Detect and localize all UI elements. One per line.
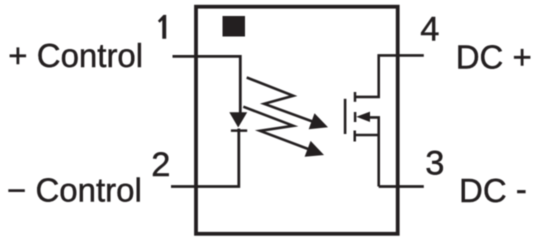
svg-text:− Control: − Control <box>7 172 142 209</box>
MOSFET Q1 body arrow head <box>356 112 370 122</box>
pin 1 marker <box>223 16 246 37</box>
MOSFET Q1 drain channel tick <box>354 92 357 102</box>
MOSFET Q1 source wire <box>355 134 379 137</box>
light arrow 1 head <box>309 113 328 129</box>
wire pin 3 <box>379 185 424 188</box>
MOSFET Q1 drain wire to pin 4 <box>355 55 424 97</box>
wire LED cathode to pin 2 <box>171 129 239 187</box>
svg-text:DC +: DC + <box>456 39 532 76</box>
light arrow 2 head <box>305 141 324 157</box>
svg-text:+ Control: + Control <box>8 37 143 74</box>
MOSFET Q1 body tick <box>354 112 357 122</box>
MOSFET Q1 source channel tick <box>354 131 357 142</box>
package outline U1 <box>196 7 398 234</box>
pin 1 number label <box>158 15 166 39</box>
MOSFET Q1 body wire <box>369 117 379 186</box>
svg-text:3: 3 <box>425 144 444 182</box>
svg-text:2: 2 <box>151 146 170 184</box>
svg-text:DC -: DC - <box>459 171 527 210</box>
svg-text:4: 4 <box>420 10 439 48</box>
wire pin 1 to LED anode <box>173 56 241 113</box>
light arrow 1 zigzag <box>247 78 313 122</box>
MOSFET Q1 gate line <box>344 99 347 134</box>
LED D1 anode triangle <box>229 112 247 127</box>
LED D1 cathode bar <box>231 129 247 132</box>
light arrow 2 zigzag <box>243 107 308 149</box>
